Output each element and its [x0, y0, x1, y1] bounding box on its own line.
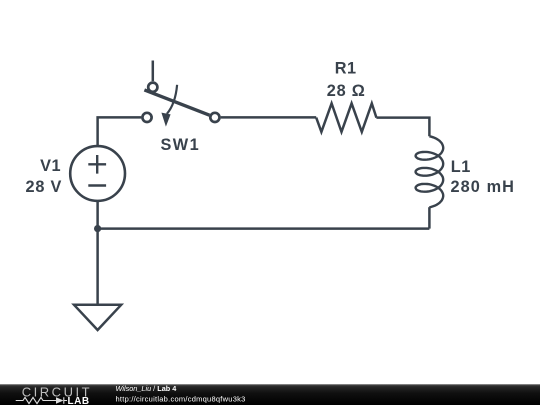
logo resistor-diode glyph — [16, 397, 67, 404]
V1 plus sign — [88, 155, 106, 174]
wire from V1 top corner to SW1 pole terminal — [98, 117, 142, 146]
inductor L1 coil — [416, 136, 444, 207]
svg-text:280 mH: 280 mH — [451, 178, 516, 196]
svg-text:SW1: SW1 — [161, 136, 200, 154]
svg-text:LAB: LAB — [68, 396, 90, 405]
svg-text:L1: L1 — [451, 158, 471, 176]
switch SW1 left terminal — [142, 113, 151, 122]
wire R1 to L1 — [376, 118, 429, 137]
svg-text:R1: R1 — [335, 59, 357, 77]
resistor R1 — [316, 103, 376, 131]
wire top stub to SW1 throw terminal — [152, 61, 155, 82]
voltage source V1 circle — [70, 146, 125, 201]
svg-text:28 V: 28 V — [25, 178, 62, 196]
switch SW1 right terminal — [210, 113, 219, 122]
switch SW1 actuation arrow arc — [167, 85, 177, 114]
svg-text:http://circuitlab.com/cdmqu8qf: http://circuitlab.com/cdmqu8qfwu3k3 — [116, 394, 246, 403]
V1 minus sign — [88, 184, 106, 186]
wire V1 to ground — [96, 201, 99, 305]
svg-text:Wilson_Liu / Lab 4: Wilson_Liu / Lab 4 — [116, 384, 178, 393]
svg-text:V1: V1 — [40, 157, 61, 175]
wire SW1 to R1 — [221, 116, 317, 119]
switch SW1 top terminal — [148, 83, 157, 92]
switch SW1 lever — [144, 90, 209, 115]
switch SW1 arrowhead — [161, 113, 170, 127]
wire bottom rail — [98, 227, 430, 230]
svg-text:28 Ω: 28 Ω — [327, 82, 366, 100]
wire L1 to bottom rail — [428, 207, 431, 228]
ground symbol — [74, 305, 121, 330]
node junction dot — [94, 225, 101, 232]
